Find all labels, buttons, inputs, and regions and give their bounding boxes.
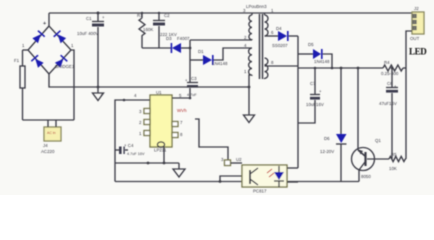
ground primary [97, 87, 99, 93]
svg-text:2: 2 [139, 120, 142, 125]
wire bottom rail right [287, 181, 359, 183]
bridge diode bottom-right [55, 55, 68, 68]
node switch vertical [189, 40, 191, 98]
junction dot rail top C1 [97, 12, 100, 15]
svg-text:1: 1 [244, 69, 247, 74]
U1 pin8 pad [172, 133, 178, 138]
svg-text:8: 8 [271, 60, 274, 65]
capacitor C6 [391, 68, 393, 87]
svg-text:PC817: PC817 [253, 189, 267, 194]
svg-text:U1: U1 [156, 90, 162, 95]
svg-text:LED: LED [409, 47, 427, 57]
core lines [260, 14, 263, 79]
IC U1 [150, 95, 172, 147]
svg-text:Q1: Q1 [375, 138, 381, 143]
capacitor C3 [187, 82, 198, 84]
svg-text:C6: C6 [387, 81, 393, 86]
U2 red arrows [267, 169, 274, 177]
wire U2 right top pin [287, 167, 298, 169]
svg-text:D1: D1 [198, 49, 204, 54]
wire secondary return [265, 65, 299, 67]
svg-text:0.25-300: 0.25-300 [381, 71, 399, 76]
ground aux [248, 87, 250, 115]
bridge rectifier BRIDGE1 diamond [28, 26, 71, 74]
connector J4 AC220 [44, 127, 61, 141]
ground U1 [178, 163, 180, 169]
svg-text:12-20V: 12-20V [320, 149, 334, 154]
wire mid ground rail [115, 162, 179, 164]
svg-text:10uF 400V: 10uF 400V [77, 31, 99, 36]
resistor R4 [383, 65, 403, 71]
U2 led [274, 172, 284, 180]
svg-text:1: 1 [271, 8, 274, 13]
junction dot C1 ground [97, 86, 100, 89]
svg-text:1N4148: 1N4148 [314, 59, 330, 64]
svg-text:4: 4 [244, 43, 247, 48]
junction dot pin4 [123, 99, 126, 102]
wire AC right riser [71, 50, 74, 120]
svg-text:3: 3 [221, 157, 224, 162]
diode D4 [265, 35, 279, 37]
U1 pin4 wire [115, 100, 150, 182]
junction dot aux ground [248, 86, 251, 89]
svg-text:D4: D4 [276, 26, 282, 31]
secondary top winding [265, 13, 269, 36]
svg-text:C1: C1 [86, 16, 92, 21]
svg-text:+: + [185, 78, 188, 83]
U1 pin7 pad [172, 122, 178, 127]
capacitor C2 [158, 13, 160, 20]
U1 pin3 pad [144, 109, 150, 114]
node spine secondary [297, 36, 299, 168]
svg-text:1N4148: 1N4148 [212, 61, 228, 66]
svg-text:4.7uF 16V: 4.7uF 16V [127, 152, 145, 156]
junction dot Q1 collector [357, 67, 360, 70]
svg-text:2: 2 [244, 35, 247, 40]
svg-text:1: 1 [71, 43, 74, 48]
svg-text:10uF16V: 10uF16V [306, 102, 324, 107]
wire U2 right bottom pin [287, 181, 298, 183]
svg-text:LP211: LP211 [154, 148, 167, 153]
capacitor C4 [115, 149, 119, 151]
wire top rail [49, 12, 412, 14]
svg-text:4.7uF: 4.7uF [187, 93, 197, 97]
svg-text:AC in: AC in [47, 131, 56, 135]
junction dot C7 top [314, 67, 317, 70]
U1 bottom stub [163, 147, 165, 163]
Q1 emitter arrow [359, 150, 364, 155]
svg-text:1: 1 [22, 43, 25, 48]
svg-text:R4: R4 [384, 60, 390, 65]
wire clamp bottom [142, 47, 172, 49]
U1 pin5 wire [172, 97, 190, 99]
fuse F1 [23, 49, 29, 51]
zener D6 [340, 68, 342, 134]
capacitor C7 [314, 68, 316, 94]
transformer T1 LPouBnn3 [243, 4, 274, 79]
svg-text:U2: U2 [236, 157, 242, 162]
capacitor C1 [97, 13, 99, 21]
svg-text:F1: F1 [14, 58, 20, 63]
svg-text:C3: C3 [191, 76, 197, 81]
diode D5 [298, 53, 313, 55]
bridge diode bottom-left [31, 55, 44, 68]
svg-text:J4: J4 [43, 143, 48, 148]
wire bottom rail left [115, 181, 242, 183]
U2 phototransistor [249, 170, 251, 184]
connector J2 [412, 12, 424, 34]
junction dot C6 top [391, 67, 394, 70]
svg-text:8: 8 [180, 132, 183, 137]
wire primary pin2 [190, 39, 252, 41]
resistor R5 [389, 156, 406, 161]
svg-text:D6: D6 [324, 136, 330, 141]
junction dot pin5 [189, 97, 192, 100]
U2 pad 3 [225, 160, 231, 166]
svg-text:AC220: AC220 [41, 149, 55, 154]
wire feedback U1 to U2 [195, 119, 228, 160]
junction dot mid1 [147, 162, 150, 165]
junction dot mid2 [163, 162, 166, 165]
diode D3 [171, 43, 181, 53]
svg-text:OUT: OUT [410, 36, 420, 41]
svg-text:+: + [394, 84, 397, 89]
bridge diode top-left [32, 30, 45, 43]
svg-text:6: 6 [271, 30, 274, 35]
svg-text:47uF16V: 47uF16V [379, 101, 397, 106]
svg-text:D5: D5 [308, 42, 314, 47]
junction dot D6 top [340, 67, 343, 70]
svg-text:5: 5 [179, 93, 182, 98]
junction dot bottom [219, 180, 222, 183]
primary winding [249, 13, 252, 40]
svg-text:F4007: F4007 [177, 36, 190, 41]
svg-text:3: 3 [139, 109, 142, 114]
wire J2 bottom return [406, 31, 412, 159]
optocoupler U2 PC817 [242, 165, 287, 187]
svg-text:R5: R5 [391, 152, 397, 157]
svg-text:+ C4: + C4 [124, 143, 134, 148]
svg-text:160K: 160K [143, 27, 153, 32]
svg-text:D3: D3 [166, 36, 172, 41]
U1 pin2 pad [144, 120, 150, 125]
svg-text:WVh: WVh [177, 108, 187, 113]
resistor R1 [141, 13, 143, 18]
diode D1 [190, 59, 203, 61]
junction dot D3 node [189, 47, 192, 50]
wire Q1 base [367, 158, 389, 160]
transistor Q1 [357, 68, 359, 150]
wire output rail [298, 67, 383, 69]
wire aux bottom to ground [249, 75, 252, 87]
svg-text:10K: 10K [389, 166, 397, 171]
svg-text:LPouBnn3: LPouBnn3 [246, 4, 267, 9]
svg-text:SS0207: SS0207 [272, 43, 288, 48]
svg-text:+: + [319, 89, 322, 94]
junction dot rail C2 [158, 12, 160, 14]
svg-text:C2: C2 [164, 13, 170, 18]
svg-text:8050: 8050 [361, 174, 371, 179]
svg-text:+: + [102, 15, 105, 20]
svg-text:7: 7 [180, 120, 183, 125]
wire U2 left bottom pin [220, 176, 242, 182]
wire AC bottom [23, 119, 75, 121]
wire bridge top stub [48, 13, 50, 26]
svg-text:C7: C7 [310, 81, 316, 86]
svg-text:1: 1 [139, 131, 142, 136]
junction dot rail R1 [141, 12, 143, 14]
svg-text:+: + [43, 21, 46, 27]
svg-text:4: 4 [134, 93, 137, 98]
svg-text:BRIDGE1: BRIDGE1 [55, 64, 75, 69]
junction dot D5 drop [331, 67, 334, 70]
svg-text:J2: J2 [414, 6, 419, 11]
wire primary ground rail [49, 74, 249, 87]
secondary bottom winding [265, 58, 268, 78]
bridge diode top-right [53, 30, 66, 43]
aux winding [249, 48, 252, 75]
U1 pin1 pad [144, 131, 150, 136]
